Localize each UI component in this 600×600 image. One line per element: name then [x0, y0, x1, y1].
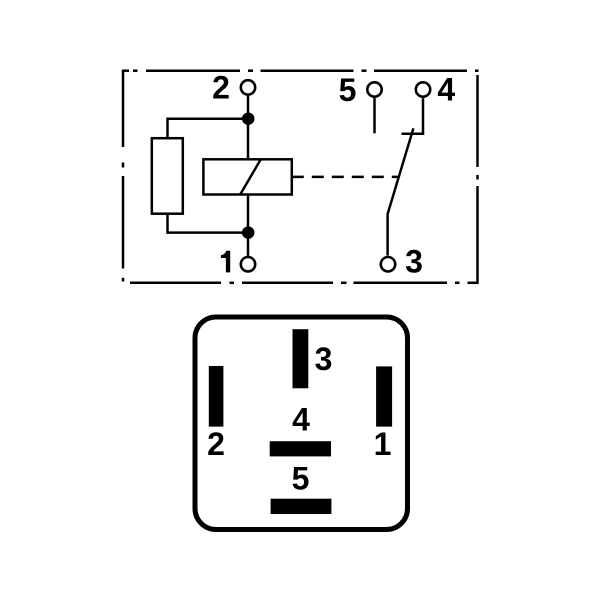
terminal 2 circle [241, 80, 255, 94]
connector housing outline [195, 317, 408, 530]
relay coil K1 diagonal stroke [240, 159, 261, 194]
resistor R1 [152, 138, 183, 214]
dash-dot enclosure border: bottom side [130, 282, 479, 285]
dashed actuation link from coil to switch [292, 176, 399, 179]
terminal 3 circle [381, 257, 395, 271]
svg-text:4: 4 [292, 402, 310, 438]
connector pin 1 blade [376, 366, 392, 426]
svg-text:5: 5 [292, 461, 310, 497]
svg-text:4: 4 [437, 71, 455, 107]
connector pin 4 blade [270, 441, 331, 456]
dash-dot enclosure border: top side [123, 69, 479, 72]
terminal 5 circle [367, 82, 381, 96]
svg-text:1: 1 [374, 426, 392, 462]
wire: terminal 4 drop and fixed contact [402, 98, 424, 134]
junction A (node 86 top) [242, 112, 255, 125]
terminal 1 circle [241, 257, 255, 271]
connector pin 2 blade [209, 366, 224, 427]
wire: resistor bottom to junction B branch [168, 214, 249, 233]
svg-text:2: 2 [212, 70, 230, 106]
junction B (node 85 bottom) [242, 226, 255, 239]
wire: junction A to resistor top branch [168, 119, 249, 139]
svg-text:3: 3 [315, 341, 333, 377]
label: pin 1 (schematic) [221, 251, 230, 273]
terminal 4 circle [416, 82, 430, 96]
svg-text:5: 5 [339, 72, 357, 108]
connector pin 3 blade [293, 329, 309, 388]
wire: terminal 5 stub [373, 98, 376, 133]
relay coil K1 body [203, 159, 291, 194]
svg-text:2: 2 [207, 426, 225, 462]
wire: vertical net from terminal 2 through coil to terminal 1 [247, 96, 250, 256]
switch S1 movable arm [388, 128, 414, 255]
dash-dot enclosure border: left side [122, 70, 125, 282]
connector pin 5 blade [271, 499, 332, 514]
dash-dot enclosure border: right side [476, 75, 479, 284]
svg-text:3: 3 [405, 243, 423, 279]
